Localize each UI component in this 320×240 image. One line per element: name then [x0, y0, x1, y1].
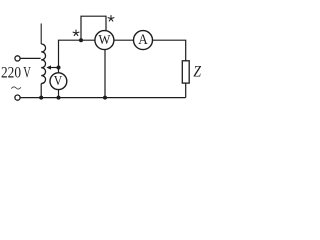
svg-text:220: 220: [1, 65, 21, 82]
svg-text:V: V: [54, 73, 63, 88]
svg-text:A: A: [138, 32, 148, 48]
svg-text:W: W: [98, 32, 110, 47]
svg-text:Z: Z: [193, 63, 201, 80]
svg-text:V: V: [23, 65, 31, 82]
